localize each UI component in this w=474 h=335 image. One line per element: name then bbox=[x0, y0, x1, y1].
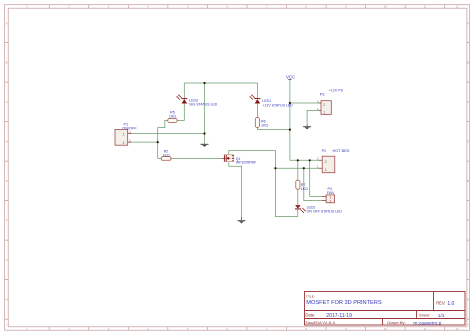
wire upper output rail VCC to P2 pin2 bbox=[290, 159, 319, 161]
wire ground stem bbox=[204, 134, 206, 144]
svg-text:HOT BED: HOT BED bbox=[333, 149, 350, 153]
wire Q1 drain up and right to lower rail bbox=[229, 151, 276, 169]
LED LED2 bbox=[295, 205, 342, 214]
LED LED3 bbox=[176, 94, 218, 106]
junction R7 VCC rail bbox=[297, 159, 299, 161]
svg-text:G: G bbox=[6, 258, 8, 262]
svg-text:m.caaveiro.p: m.caaveiro.p bbox=[413, 320, 441, 326]
junction P1 pin2 bbox=[157, 141, 159, 143]
wire LED1 cathode to rail bbox=[256, 83, 258, 99]
wire FAN pin1 branch bbox=[304, 168, 322, 200]
svg-text:D: D bbox=[467, 139, 469, 143]
wire junction down to R2 bbox=[158, 142, 162, 158]
svg-text:E: E bbox=[6, 179, 8, 183]
svg-text:ON OFF STATUS LED: ON OFF STATUS LED bbox=[307, 210, 343, 214]
svg-text:1KΩ: 1KΩ bbox=[261, 124, 268, 128]
wire Q1 source to ground bbox=[229, 162, 242, 217]
svg-text:P3: P3 bbox=[320, 93, 325, 97]
junction FAN pin1 bbox=[303, 167, 305, 169]
wire LED3 cathode up to rail bbox=[183, 83, 185, 99]
wire R7 top branch bbox=[297, 160, 299, 180]
wire P1 pin2 to junction bbox=[131, 141, 157, 143]
wire R5 left jog down to pin2 net bbox=[158, 120, 168, 142]
svg-text:+12V PS: +12V PS bbox=[329, 89, 344, 93]
wire R7 bottom to LED2 bbox=[297, 189, 299, 205]
wire P3 pin2 branch bbox=[290, 102, 319, 104]
svg-text:FAN: FAN bbox=[327, 191, 334, 195]
svg-text:C: C bbox=[6, 100, 8, 104]
svg-text:1: 1 bbox=[323, 111, 325, 115]
svg-text:11: 11 bbox=[423, 327, 426, 331]
connector P3 +12V PS bbox=[317, 89, 344, 115]
wire LED3 anode down to R5 bbox=[177, 104, 184, 121]
svg-text:1: 1 bbox=[325, 168, 327, 172]
svg-text:A: A bbox=[467, 22, 469, 26]
svg-text:+12V STATUS LED: +12V STATUS LED bbox=[262, 103, 293, 107]
resistor R5 bbox=[168, 111, 177, 123]
svg-text:1KΩ: 1KΩ bbox=[301, 187, 308, 191]
power VCC bbox=[286, 74, 295, 160]
svg-text:REV:: REV: bbox=[436, 301, 445, 306]
wire P3 pin1 to ground bbox=[307, 110, 319, 124]
svg-text:12: 12 bbox=[455, 5, 459, 9]
junction VCC P3 branch bbox=[289, 102, 291, 104]
svg-text:Drawn By:: Drawn By: bbox=[387, 320, 405, 325]
wire rail to ground junction vertical bbox=[204, 83, 206, 134]
junction at rail and ground vertical bbox=[203, 82, 205, 84]
svg-text:10: 10 bbox=[384, 327, 388, 331]
wire R6 bottom to VCC line bbox=[257, 127, 290, 129]
svg-text:H: H bbox=[6, 297, 8, 301]
svg-text:B: B bbox=[6, 60, 8, 64]
svg-text:1.0: 1.0 bbox=[447, 301, 454, 307]
svg-text:E: E bbox=[467, 179, 469, 183]
svg-text:2: 2 bbox=[330, 200, 332, 204]
wire LED1 anode to R6 bbox=[256, 104, 258, 118]
svg-text:1/1: 1/1 bbox=[438, 313, 445, 319]
resistor R2 bbox=[161, 150, 171, 161]
ground bbox=[303, 125, 311, 130]
connector P4 FAN bbox=[322, 187, 335, 203]
svg-text:IRF3205PBF: IRF3205PBF bbox=[236, 161, 256, 165]
svg-text:11: 11 bbox=[423, 5, 426, 9]
svg-text:SIG STATUS LED: SIG STATUS LED bbox=[189, 103, 218, 107]
wire lower output rail drain to P2 pin1 bbox=[275, 167, 318, 169]
ground bbox=[201, 144, 209, 147]
svg-text:2017-11-19: 2017-11-19 bbox=[326, 313, 352, 319]
junction VCC R6 branch bbox=[289, 129, 291, 131]
svg-text:1KΩ: 1KΩ bbox=[169, 115, 176, 119]
connector P1 ON/OFF bbox=[115, 122, 137, 145]
svg-text:2: 2 bbox=[123, 141, 125, 145]
svg-text:P2: P2 bbox=[322, 149, 327, 153]
svg-text:D: D bbox=[6, 139, 8, 143]
svg-text:F: F bbox=[467, 218, 469, 222]
svg-text:2: 2 bbox=[325, 160, 327, 164]
svg-text:VCC: VCC bbox=[286, 74, 295, 79]
svg-text:G: G bbox=[467, 258, 469, 262]
wire P1 pin1 to ground junction bbox=[131, 133, 204, 135]
svg-text:C: C bbox=[467, 100, 469, 104]
svg-text:Date:: Date: bbox=[305, 313, 315, 318]
svg-text:H: H bbox=[467, 297, 469, 301]
junction FAN pin2 bbox=[309, 159, 311, 161]
svg-text:TITLE:: TITLE: bbox=[306, 294, 315, 298]
svg-text:F: F bbox=[6, 218, 8, 222]
junction drain rail bbox=[274, 167, 276, 169]
transistor Q1 bbox=[222, 155, 256, 165]
svg-text:2: 2 bbox=[323, 103, 325, 107]
svg-text:B: B bbox=[467, 60, 469, 64]
ground bbox=[238, 220, 246, 223]
title block bbox=[305, 292, 466, 326]
svg-text:A: A bbox=[6, 22, 8, 26]
svg-text:MOSFET FOR 3D PRINTERS: MOSFET FOR 3D PRINTERS bbox=[306, 300, 382, 306]
connector P2 HOT BED bbox=[317, 149, 350, 173]
wire R2 to Q1 gate bbox=[171, 157, 222, 159]
svg-text:Sheet:: Sheet: bbox=[419, 313, 431, 318]
junction P1 pin1 ground bbox=[203, 132, 205, 134]
wire LED2 cathode loop to drain rail bbox=[275, 168, 297, 216]
wire FAN pin2 branch bbox=[310, 160, 322, 196]
svg-text:1: 1 bbox=[123, 132, 125, 136]
resistor R7 bbox=[296, 180, 308, 191]
resistor R6 bbox=[255, 118, 268, 128]
wire top rail LED3 to LED1 bbox=[184, 82, 257, 84]
svg-text:10: 10 bbox=[384, 5, 388, 9]
svg-text:EasyEDA V4.11.5: EasyEDA V4.11.5 bbox=[306, 320, 335, 325]
LED LED1 bbox=[249, 94, 293, 107]
svg-text:12: 12 bbox=[455, 327, 459, 331]
wire ground stem Q1 bbox=[241, 217, 243, 220]
